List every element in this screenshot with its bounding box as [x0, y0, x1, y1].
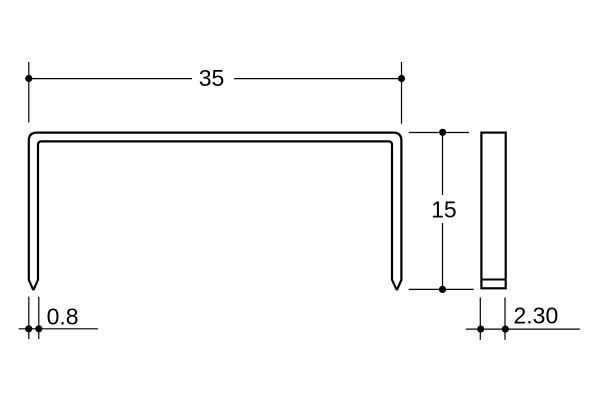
- dim 15 line upper segment: [442, 133, 444, 196]
- dim 2.30 line: [466, 328, 580, 330]
- dim 2.30 extension line left: [479, 298, 481, 340]
- dim 2.30 dot right: [502, 326, 509, 333]
- svg-text:15: 15: [431, 197, 457, 223]
- dim 0.8 extension line left: [28, 297, 30, 339]
- dim 35 extension line right: [401, 62, 403, 124]
- dim 35 line left segment: [29, 78, 192, 80]
- dim 0.8 dot left: [25, 325, 32, 332]
- dim 35 line right segment: [234, 78, 402, 80]
- dim 15 dot top: [439, 129, 446, 136]
- staple front view inner contour: [33, 141, 397, 290]
- dim 15 extension line bottom: [409, 288, 474, 290]
- dim 15 line lower segment: [442, 223, 444, 289]
- dim 2.30 extension line right: [504, 298, 506, 340]
- svg-text:2.30: 2.30: [514, 303, 559, 329]
- dim 0.8 extension line right: [38, 297, 40, 339]
- dim 15 dot bottom: [439, 286, 446, 293]
- dim 35 dot left: [25, 75, 32, 82]
- dim 0.8 line: [19, 328, 98, 330]
- dim 35 extension line left: [28, 62, 30, 123]
- staple front view outer contour: [29, 133, 402, 291]
- dim 2.30 dot left: [477, 326, 484, 333]
- side view body: [481, 133, 505, 289]
- dim 35 dot right: [398, 75, 405, 82]
- dim 15 extension line top: [409, 132, 469, 134]
- svg-text:0.8: 0.8: [47, 304, 79, 330]
- side view point line: [481, 279, 505, 281]
- dim 0.8 dot right: [35, 325, 42, 332]
- svg-text:35: 35: [199, 65, 225, 91]
